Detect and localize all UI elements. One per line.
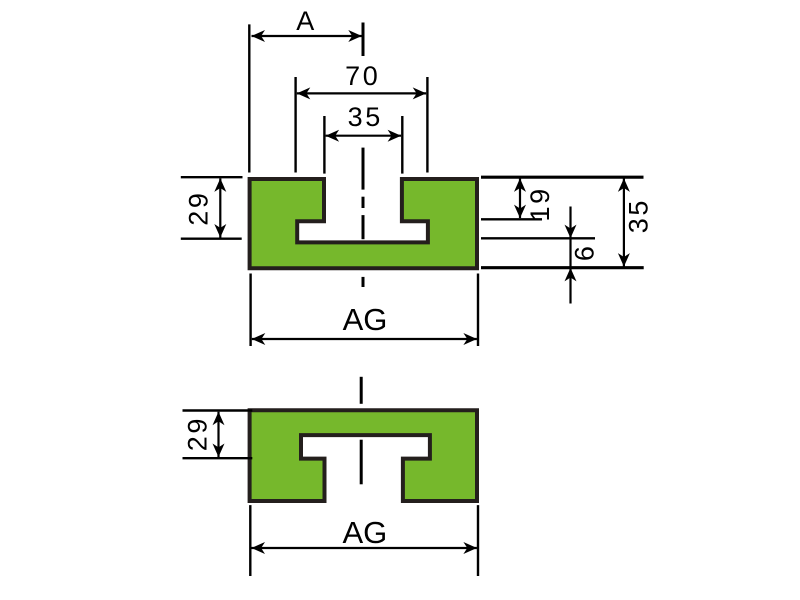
centerline dash (into slot) — [362, 215, 365, 239]
extension line: 35 left — [323, 116, 325, 174]
dimension 70 — [297, 92, 426, 94]
dimension AG (lower figure) — [252, 547, 477, 549]
dimension 6 (right) — [569, 207, 571, 304]
extension line: 35 right — [401, 116, 403, 174]
extension line: 29 bottom (upper figure) — [181, 237, 242, 239]
extension line: 6 top — [481, 237, 595, 239]
centerline (top figure) dash-dot — [362, 23, 365, 288]
extension lines — [181, 24, 595, 576]
svg-text:35: 35 — [624, 198, 654, 233]
extension line: 29 bottom (lower figure) — [183, 457, 253, 459]
extension line: profile top edge extended right — [481, 176, 644, 179]
centerline dash — [362, 148, 365, 190]
dimension 35 (far right) — [623, 178, 625, 266]
extension line: AG left (lower figure) — [249, 505, 251, 576]
svg-text:A: A — [296, 6, 317, 36]
profile cross-section (lower figure), slot opening down — [250, 410, 477, 501]
extension line: AG right (upper figure) — [477, 274, 479, 347]
extension line: 70 right — [426, 77, 428, 173]
centerline dash (above lower profile) — [360, 377, 363, 404]
profile cross-section (top figure), slot opening up — [250, 179, 477, 268]
dimension 29 (top figure, left) — [219, 178, 221, 237]
extension line: AG left (upper figure) — [249, 274, 251, 347]
extension line: AG right (lower figure) — [477, 505, 479, 576]
extension line: 29 top (upper figure) — [181, 176, 243, 178]
svg-text:AG: AG — [343, 302, 388, 337]
svg-text:70: 70 — [345, 61, 380, 91]
svg-text:6: 6 — [570, 243, 600, 261]
extension line: 19 bottom — [481, 218, 542, 220]
extension line: 70 left — [294, 77, 296, 173]
long object-extension lines on right — [481, 177, 644, 268]
dimension 29 (lower figure, left) — [217, 412, 219, 457]
svg-text:29: 29 — [183, 416, 213, 451]
centerline dash (above A arrow) — [362, 23, 365, 57]
centerline dot — [362, 197, 365, 208]
dimension AG (top figure) — [252, 338, 477, 340]
extension line: left edge for A — [248, 24, 250, 172]
svg-text:29: 29 — [184, 190, 214, 225]
dimension A — [252, 35, 362, 37]
svg-text:35: 35 — [348, 102, 383, 132]
dimension 19 (right) — [519, 178, 521, 218]
centerline dash (inside lower slot) — [360, 440, 363, 485]
svg-text:19: 19 — [525, 186, 555, 221]
centerline (lower figure) — [360, 377, 363, 485]
extension line: profile bottom edge extended right — [481, 266, 644, 269]
centerline dash (below profile) — [362, 277, 365, 287]
dimension 35 (top) — [326, 135, 402, 137]
extension line: 29 top (lower figure) — [183, 409, 253, 411]
svg-text:AG: AG — [343, 515, 388, 550]
